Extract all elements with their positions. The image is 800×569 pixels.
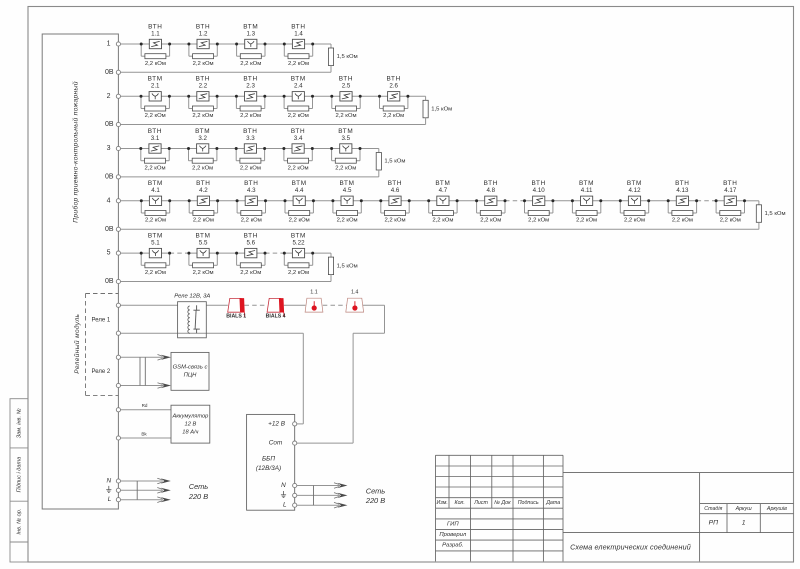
svg-text:Прибор приемно-контрольный пож: Прибор приемно-контрольный пожарный [72, 81, 80, 223]
svg-text:2,2 кОм: 2,2 кОм [432, 218, 453, 224]
svg-text:ВТН: ВТН [291, 128, 305, 135]
svg-text:Разраб.: Разраб. [442, 543, 463, 549]
svg-text:5.22: 5.22 [292, 240, 305, 247]
svg-text:РП: РП [709, 520, 719, 527]
svg-text:1.1: 1.1 [310, 289, 318, 295]
svg-text:0В: 0В [105, 278, 114, 285]
svg-text:3.3: 3.3 [246, 135, 255, 142]
svg-text:18 А/ч: 18 А/ч [182, 429, 198, 435]
svg-text:2,2 кОм: 2,2 кОм [240, 113, 261, 119]
svg-text:2,2 кОм: 2,2 кОм [480, 218, 501, 224]
svg-text:4.10: 4.10 [533, 187, 546, 194]
svg-text:2,2 кОм: 2,2 кОм [145, 61, 166, 67]
svg-text:ВТН: ВТН [243, 76, 257, 83]
svg-text:220 В: 220 В [188, 492, 208, 501]
svg-text:2,2 кОм: 2,2 кОм [528, 218, 549, 224]
svg-text:2,2 кОм: 2,2 кОм [288, 165, 309, 171]
svg-text:2,2 кОм: 2,2 кОм [193, 218, 214, 224]
svg-text:ББП: ББП [262, 455, 275, 462]
svg-text:1.4: 1.4 [294, 30, 303, 37]
svg-text:2.3: 2.3 [246, 83, 255, 90]
svg-text:ВТН: ВТН [196, 23, 210, 30]
svg-text:ГИП: ГИП [447, 521, 459, 527]
svg-text:Зам. інв. №: Зам. інв. № [17, 408, 23, 438]
svg-text:2,2 кОм: 2,2 кОм [192, 165, 213, 171]
svg-text:2,2 кОм: 2,2 кОм [337, 218, 358, 224]
svg-text:1,5 кОм: 1,5 кОм [384, 159, 405, 165]
svg-text:5.6: 5.6 [246, 240, 255, 247]
svg-text:ВТН: ВТН [723, 180, 737, 187]
svg-text:2,2 кОм: 2,2 кОм [288, 113, 309, 119]
svg-text:ВТМ: ВТМ [435, 180, 450, 187]
svg-text:4.17: 4.17 [724, 187, 737, 194]
svg-text:3.5: 3.5 [341, 135, 350, 142]
svg-text:ВТМ: ВТМ [627, 180, 642, 187]
svg-text:1.1: 1.1 [151, 30, 160, 37]
svg-text:ВТН: ВТН [148, 23, 162, 30]
svg-text:Схема електрических соединений: Схема електрических соединений [570, 542, 691, 551]
svg-text:2,2 кОм: 2,2 кОм [193, 61, 214, 67]
svg-text:ВТМ: ВТМ [338, 128, 353, 135]
svg-text:Аркушів: Аркушів [766, 506, 787, 512]
svg-text:Сеть: Сеть [366, 487, 386, 496]
svg-text:2,2 кОм: 2,2 кОм [240, 61, 261, 67]
svg-text:ВТМ: ВТМ [340, 180, 355, 187]
svg-text:ВТМ: ВТМ [291, 232, 306, 239]
svg-text:3.1: 3.1 [151, 135, 160, 142]
svg-text:1,5 кОм: 1,5 кОм [765, 211, 786, 217]
svg-text:4.7: 4.7 [439, 187, 448, 194]
svg-text:4.1: 4.1 [151, 187, 160, 194]
svg-text:2,2 кОм: 2,2 кОм [145, 270, 166, 276]
svg-text:GSM-связь с: GSM-связь с [173, 365, 208, 371]
svg-text:2,2 кОм: 2,2 кОм [144, 165, 165, 171]
svg-text:ВТН: ВТН [531, 180, 545, 187]
svg-text:2,2 кОм: 2,2 кОм [335, 165, 356, 171]
svg-text:N: N [106, 477, 111, 484]
svg-text:BIALS 1: BIALS 1 [226, 314, 246, 320]
svg-text:Подпись: Подпись [518, 500, 539, 506]
svg-text:4.4: 4.4 [295, 187, 304, 194]
svg-text:Сеть: Сеть [189, 482, 209, 491]
svg-text:4.5: 4.5 [343, 187, 352, 194]
svg-text:2,2 кОм: 2,2 кОм [145, 218, 166, 224]
svg-text:Кол.: Кол. [454, 500, 464, 506]
svg-text:Проверил: Проверил [439, 532, 467, 538]
svg-text:4: 4 [107, 197, 111, 204]
svg-text:2,2 кОм: 2,2 кОм [335, 113, 356, 119]
svg-text:220 В: 220 В [365, 496, 385, 505]
svg-text:ВТМ: ВТМ [243, 23, 258, 30]
svg-text:4.13: 4.13 [676, 187, 689, 194]
svg-text:4.6: 4.6 [391, 187, 400, 194]
svg-text:1,5 кОм: 1,5 кОм [337, 54, 358, 60]
svg-text:4.12: 4.12 [628, 187, 641, 194]
svg-text:Изм.: Изм. [437, 500, 448, 506]
svg-text:ВТН: ВТН [244, 180, 258, 187]
svg-text:Сот: Сот [269, 440, 283, 447]
svg-text:4.8: 4.8 [486, 187, 495, 194]
svg-text:ВТМ: ВТМ [292, 180, 307, 187]
svg-text:5.5: 5.5 [199, 240, 208, 247]
svg-text:Релейный модуль: Релейный модуль [73, 313, 81, 373]
svg-text:ВТМ: ВТМ [148, 232, 163, 239]
svg-text:ВТН: ВТН [148, 128, 162, 135]
svg-text:2: 2 [107, 93, 111, 100]
svg-text:1,5 кОм: 1,5 кОм [431, 107, 452, 113]
svg-text:ПЦН: ПЦН [184, 372, 198, 378]
svg-text:ВТН: ВТН [291, 23, 305, 30]
svg-text:0В: 0В [105, 226, 114, 233]
svg-text:12 В: 12 В [185, 422, 197, 428]
svg-text:Реле 2: Реле 2 [92, 369, 111, 375]
svg-text:4.3: 4.3 [247, 187, 256, 194]
svg-text:Лист: Лист [473, 500, 488, 506]
svg-text:ВТН: ВТН [339, 76, 353, 83]
svg-text:Bk: Bk [141, 432, 147, 437]
svg-text:ВТМ: ВТМ [148, 76, 163, 83]
svg-text:L: L [283, 502, 287, 509]
svg-text:2,2 кОм: 2,2 кОм [288, 270, 309, 276]
svg-text:ВТМ: ВТМ [579, 180, 594, 187]
svg-text:3.2: 3.2 [198, 135, 207, 142]
svg-text:0В: 0В [105, 121, 114, 128]
svg-text:2,2 кОм: 2,2 кОм [384, 218, 405, 224]
svg-text:1.4: 1.4 [351, 289, 359, 295]
svg-text:ВТН: ВТН [675, 180, 689, 187]
svg-text:4.11: 4.11 [581, 187, 593, 194]
svg-text:4.2: 4.2 [199, 187, 208, 194]
svg-text:ВТН: ВТН [244, 232, 258, 239]
svg-text:ВТМ: ВТМ [196, 232, 211, 239]
svg-text:Підпис і дата: Підпис і дата [17, 457, 23, 493]
svg-text:Інв. № ор.: Інв. № ор. [17, 509, 23, 535]
svg-text:ВТН: ВТН [196, 180, 210, 187]
svg-text:1,5 кОм: 1,5 кОм [337, 263, 358, 269]
svg-text:2,2 кОм: 2,2 кОм [241, 218, 262, 224]
svg-text:№ Док: № Док [494, 500, 511, 506]
svg-text:2,2 кОм: 2,2 кОм [192, 113, 213, 119]
svg-text:2,2 кОм: 2,2 кОм [720, 218, 741, 224]
svg-text:2.6: 2.6 [389, 83, 398, 90]
svg-text:2,2 кОм: 2,2 кОм [289, 218, 310, 224]
svg-text:Стадія: Стадія [704, 506, 722, 512]
svg-text:2.1: 2.1 [151, 83, 160, 90]
svg-text:(12В/3А): (12В/3А) [256, 465, 281, 472]
svg-text:2.5: 2.5 [342, 83, 351, 90]
svg-text:2.2: 2.2 [199, 83, 208, 90]
svg-text:Реле 12В, 3А: Реле 12В, 3А [174, 293, 210, 299]
svg-text:2,2 кОм: 2,2 кОм [672, 218, 693, 224]
svg-text:Аккумулятор: Аккумулятор [171, 413, 208, 419]
svg-text:2.4: 2.4 [294, 83, 303, 90]
svg-text:5.1: 5.1 [151, 240, 160, 247]
svg-text:2,2 кОм: 2,2 кОм [288, 61, 309, 67]
svg-text:ВТН: ВТН [386, 76, 400, 83]
svg-text:2,2 кОм: 2,2 кОм [576, 218, 597, 224]
svg-text:ВТН: ВТН [388, 180, 402, 187]
svg-text:3.4: 3.4 [294, 135, 303, 142]
svg-text:ВТН: ВТН [484, 180, 498, 187]
svg-text:1: 1 [742, 520, 746, 527]
svg-text:ВТМ: ВТМ [148, 180, 163, 187]
svg-text:ВТМ: ВТМ [195, 128, 210, 135]
svg-text:BIALS 4: BIALS 4 [266, 314, 286, 320]
svg-text:2,2 кОм: 2,2 кОм [240, 270, 261, 276]
svg-text:5: 5 [107, 250, 111, 257]
svg-text:0В: 0В [105, 173, 114, 180]
svg-text:1.2: 1.2 [199, 30, 208, 37]
svg-text:Дата: Дата [545, 500, 560, 506]
svg-text:1: 1 [107, 41, 111, 48]
svg-text:3: 3 [107, 145, 111, 152]
svg-text:+12 В: +12 В [268, 420, 286, 427]
svg-text:N: N [281, 482, 286, 489]
svg-text:ВТМ: ВТМ [291, 76, 306, 83]
svg-text:Rd: Rd [142, 403, 148, 408]
svg-text:ВТН: ВТН [243, 128, 257, 135]
svg-text:2,2 кОм: 2,2 кОм [624, 218, 645, 224]
svg-text:L: L [108, 496, 112, 503]
svg-text:2,2 кОм: 2,2 кОм [240, 165, 261, 171]
svg-text:Аркуш: Аркуш [735, 506, 753, 512]
svg-text:1.3: 1.3 [246, 30, 255, 37]
svg-text:ВТН: ВТН [196, 76, 210, 83]
svg-text:2,2 кОм: 2,2 кОм [383, 113, 404, 119]
svg-text:Реле 1: Реле 1 [92, 318, 111, 324]
svg-text:0В: 0В [105, 69, 114, 76]
svg-text:2,2 кОм: 2,2 кОм [145, 113, 166, 119]
svg-text:2,2 кОм: 2,2 кОм [193, 270, 214, 276]
